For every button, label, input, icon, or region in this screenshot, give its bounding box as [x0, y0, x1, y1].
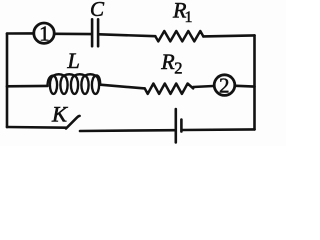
- wire right vertical: [253, 35, 256, 129]
- svg-text:2: 2: [219, 73, 230, 97]
- node 2 (circle meter): [214, 75, 235, 96]
- svg-text:1: 1: [39, 22, 50, 46]
- wire node 1 to capacitor: [55, 32, 91, 35]
- svg-text:R: R: [160, 49, 175, 74]
- resistor R2 zigzag: [145, 84, 194, 94]
- wire bottom left to switch: [7, 126, 66, 129]
- svg-text:1: 1: [185, 9, 193, 26]
- wire left vertical: [6, 34, 9, 128]
- svg-text:L: L: [66, 48, 80, 73]
- inductor L coil arches: [48, 74, 101, 86]
- inductor L coil loop 4: [81, 76, 88, 94]
- wire node 2 to right vertical: [236, 85, 255, 88]
- wire switch contact to battery: [80, 129, 174, 132]
- wire R2 to node 2: [193, 86, 213, 87]
- capacitor C plates: [91, 19, 94, 46]
- inductor L coil loop 1: [50, 76, 57, 94]
- wire capacitor to R1: [99, 34, 155, 36]
- svg-text:K: K: [51, 101, 68, 126]
- wire battery to bottom right corner: [183, 128, 255, 131]
- wire R1 to top right corner: [203, 35, 254, 36]
- wire middle left to inductor: [7, 85, 48, 88]
- svg-text:2: 2: [174, 59, 182, 78]
- switch K blade: [66, 116, 80, 129]
- inductor L coil loop 5: [92, 76, 99, 94]
- battery short plate: [180, 120, 183, 132]
- wire top left to node 1: [7, 32, 33, 35]
- battery long plate: [175, 109, 178, 142]
- inductor L coil loop 3: [71, 76, 78, 94]
- inductor L coil loop 2: [60, 76, 67, 94]
- wire inductor to R2: [100, 85, 145, 89]
- node 1 (circle meter): [34, 23, 54, 43]
- resistor R1 zigzag: [155, 31, 203, 41]
- svg-text:C: C: [90, 0, 105, 21]
